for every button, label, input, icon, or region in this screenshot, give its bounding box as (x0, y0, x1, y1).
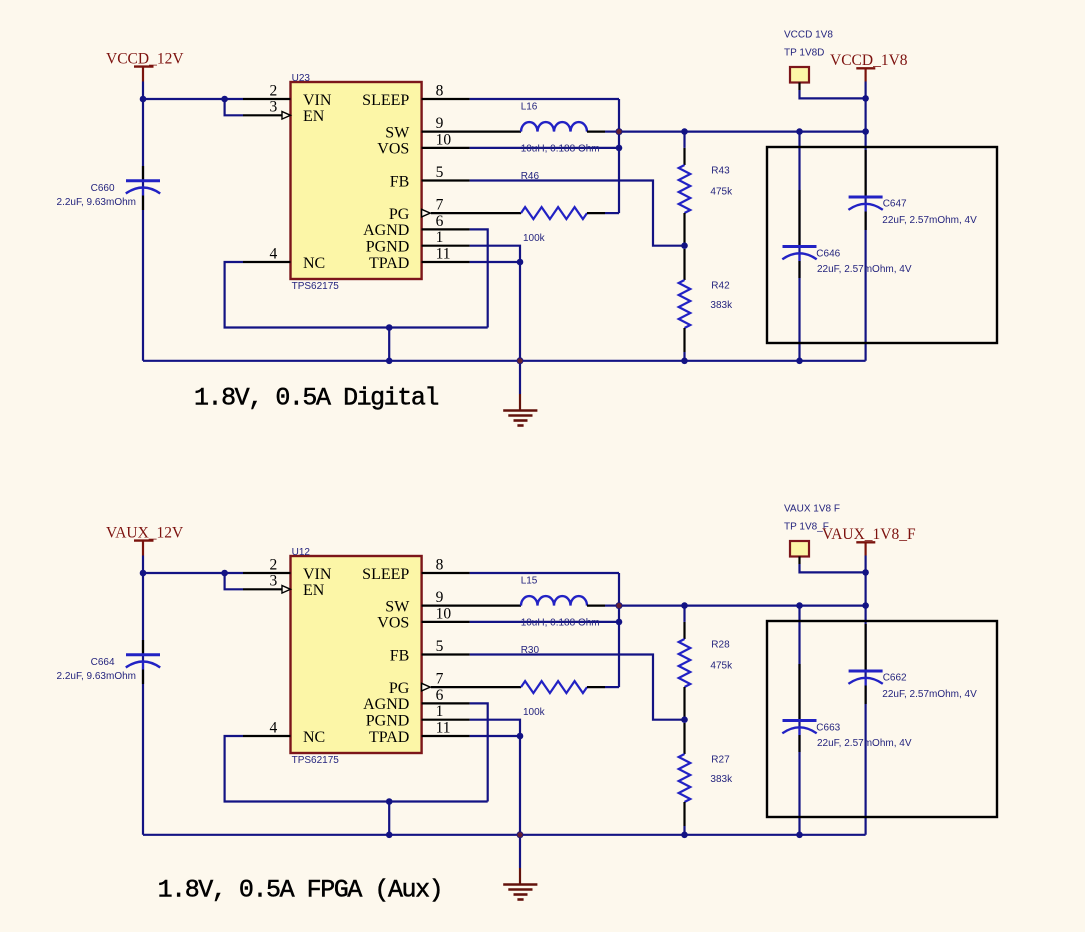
label TPS62175 (292, 755, 340, 766)
pin 8 SLEEP (422, 556, 470, 573)
junction divider top (681, 128, 688, 135)
pin 6 AGND (422, 213, 470, 230)
wire output rail (619, 131, 866, 133)
wire NC loop (225, 736, 488, 802)
svg-text:100k: 100k (523, 233, 546, 244)
junction NC tie (386, 324, 393, 331)
svg-text:AGND: AGND (363, 222, 409, 239)
wire TPAD to ground (470, 262, 520, 361)
inductor L15 (521, 575, 605, 605)
testpoint TP 1V8_F (790, 541, 809, 564)
caption 1.8V, 0.5A Digital (194, 384, 438, 413)
wire output cap column 1 (864, 606, 866, 835)
svg-text:22uF, 2.57mOhm, 4V: 22uF, 2.57mOhm, 4V (882, 689, 977, 700)
wire inductor out (605, 604, 619, 606)
wire output power column (864, 82, 866, 132)
wire testpoint (800, 90, 866, 98)
svg-text:L16: L16 (521, 101, 538, 112)
label TP 1V8D (784, 47, 824, 58)
svg-text:C646: C646 (816, 249, 840, 260)
wire output power column (864, 556, 866, 606)
IC U23 body (291, 82, 422, 279)
wire VOS (470, 621, 619, 623)
pin 10 VOS (422, 131, 470, 148)
svg-text:6: 6 (436, 213, 444, 230)
pin 4 NC (243, 245, 291, 262)
wire inductor out (605, 131, 619, 133)
svg-text:R30: R30 (521, 645, 540, 656)
svg-text:VAUX_12V: VAUX_12V (106, 525, 184, 542)
capacitor C662 (848, 624, 977, 704)
junction PGND TPAD (517, 259, 524, 266)
junction testpoint (862, 569, 869, 576)
wire input cap column (142, 82, 144, 361)
pin 2 VIN (243, 556, 291, 573)
power port VCCD_12V (106, 51, 184, 82)
junction SW node (616, 602, 623, 609)
junction FB divider (681, 242, 688, 249)
svg-text:7: 7 (436, 197, 444, 214)
wire divider top (683, 606, 685, 622)
pin 6 AGND (422, 687, 470, 704)
svg-text:C647: C647 (883, 199, 907, 210)
svg-text:EN: EN (303, 582, 325, 599)
svg-text:VIN: VIN (303, 92, 332, 109)
svg-text:475k: 475k (710, 661, 733, 672)
pin 9 SW (422, 115, 521, 132)
svg-text:7: 7 (436, 671, 444, 688)
svg-text:22uF, 2.57mOhm, 4V: 22uF, 2.57mOhm, 4V (882, 215, 977, 226)
resistor R28 475k (679, 622, 733, 717)
wire output cap column 1 (864, 132, 866, 361)
pin 10 VOS (422, 605, 470, 622)
label U23 (292, 73, 311, 84)
svg-text:NC: NC (303, 729, 325, 746)
svg-text:C660: C660 (91, 183, 115, 194)
wire PG resistor out (605, 212, 619, 214)
svg-text:100k: 100k (523, 707, 546, 718)
pin 4 NC (243, 719, 291, 736)
svg-text:R28: R28 (711, 640, 730, 651)
resistor R42 383k (679, 249, 733, 358)
junction gnd rail left (386, 358, 393, 365)
svg-text:R42: R42 (711, 281, 730, 292)
caption 1.8V, 0.5A FPGA (Aux) (158, 876, 443, 905)
svg-text:VIN: VIN (303, 566, 332, 583)
junction testpoint (862, 95, 869, 102)
svg-text:C663: C663 (816, 723, 840, 734)
svg-text:1.8V, 0.5A Digital: 1.8V, 0.5A Digital (194, 384, 438, 413)
svg-text:3: 3 (270, 99, 278, 116)
label TPS62175 (292, 281, 340, 292)
svg-text:VCCD_1V8: VCCD_1V8 (830, 52, 908, 69)
svg-text:C662: C662 (883, 673, 907, 684)
wire PGND (470, 246, 520, 262)
svg-text:L15: L15 (521, 575, 538, 586)
junction divider gnd (681, 832, 688, 839)
wire PGND (470, 720, 520, 736)
junction rail power (862, 602, 869, 609)
wire testpoint (800, 564, 866, 572)
pin 7 PG (422, 197, 521, 217)
junction EN tap (221, 570, 228, 577)
testpoint TP 1V8D (790, 67, 809, 90)
junction NC tie (386, 798, 393, 805)
junction VOS node (616, 619, 623, 626)
wire FB to divider (470, 655, 685, 720)
svg-text:5: 5 (436, 164, 444, 181)
junction cap2 gnd (796, 832, 803, 839)
junction divider top (681, 602, 688, 609)
power port VAUX_12V (106, 525, 184, 556)
svg-text:NC: NC (303, 255, 325, 272)
inductor L16 (521, 101, 605, 131)
wire EN branch (225, 573, 243, 589)
svg-text:2.2uF, 9.63mOhm: 2.2uF, 9.63mOhm (57, 671, 136, 682)
junction rail power (862, 128, 869, 135)
svg-text:4: 4 (270, 245, 278, 262)
wire EN branch (225, 99, 243, 115)
svg-text:2: 2 (270, 556, 278, 573)
svg-text:22uF, 2.57mOhm, 4V: 22uF, 2.57mOhm, 4V (817, 738, 912, 749)
pin 1 PGND (422, 703, 470, 720)
svg-text:SW: SW (385, 124, 410, 141)
svg-text:U23: U23 (292, 73, 311, 84)
wire ground rail (143, 360, 866, 362)
resistor R46 100k (521, 171, 605, 244)
svg-text:11: 11 (436, 719, 451, 736)
pin 2 VIN (243, 82, 291, 99)
power port VCCD_1V8 (830, 52, 908, 82)
label U12 (292, 547, 311, 558)
svg-text:VOS: VOS (377, 615, 409, 632)
pin 3 EN (243, 99, 291, 119)
svg-text:SLEEP: SLEEP (362, 92, 409, 109)
wire VIN rail (143, 572, 243, 574)
svg-text:FB: FB (390, 647, 410, 664)
svg-text:1: 1 (436, 229, 444, 246)
capacitor group box (767, 621, 997, 817)
label L15 value (521, 617, 600, 628)
junction divider gnd (681, 358, 688, 365)
svg-text:R27: R27 (711, 755, 730, 766)
pin 8 SLEEP (422, 82, 470, 99)
IC U12 body (291, 556, 422, 753)
junction EN tap (221, 96, 228, 103)
svg-text:EN: EN (303, 108, 325, 125)
pin 11 TPAD (422, 719, 470, 736)
wire SLEEP to bus (470, 572, 619, 574)
svg-text:10: 10 (436, 131, 452, 148)
svg-text:383k: 383k (710, 300, 733, 311)
svg-text:10uH, 0.188 Ohm: 10uH, 0.188 Ohm (521, 617, 600, 628)
junction cap2 top (796, 128, 803, 135)
label L16 value (521, 143, 600, 154)
label VAUX 1V8 F (784, 503, 840, 514)
svg-text:1: 1 (436, 703, 444, 720)
svg-text:3: 3 (270, 573, 278, 590)
junction gnd rail left (386, 832, 393, 839)
svg-text:383k: 383k (710, 774, 733, 785)
wire VOS (470, 147, 619, 149)
capacitor C664 (57, 640, 161, 684)
svg-text:C664: C664 (91, 657, 115, 668)
svg-text:10uH, 0.188 Ohm: 10uH, 0.188 Ohm (521, 143, 600, 154)
wire output rail (619, 604, 866, 606)
wire input cap column (142, 556, 144, 835)
svg-text:6: 6 (436, 687, 444, 704)
capacitor C663 (782, 664, 912, 752)
svg-text:R46: R46 (521, 171, 540, 182)
ground (503, 361, 537, 426)
capacitor C660 (57, 166, 161, 210)
junction VIN rail (140, 570, 147, 577)
svg-text:475k: 475k (710, 187, 733, 198)
capacitor C647 (848, 150, 977, 230)
svg-text:AGND: AGND (363, 696, 409, 713)
capacitor C646 (782, 190, 912, 278)
junction gnd symbol (517, 831, 524, 838)
svg-text:VCCD 1V8: VCCD 1V8 (784, 29, 833, 40)
svg-text:R43: R43 (711, 166, 730, 177)
svg-text:2: 2 (270, 82, 278, 99)
junction SW node (616, 128, 623, 135)
junction VOS node (616, 145, 623, 152)
svg-text:VAUX_1V8_F: VAUX_1V8_F (822, 526, 916, 543)
svg-text:TPAD: TPAD (369, 255, 409, 272)
svg-text:2.2uF, 9.63mOhm: 2.2uF, 9.63mOhm (57, 197, 136, 208)
wire ground drop (388, 328, 390, 361)
wire AGND (470, 229, 488, 327)
wire AGND (470, 703, 488, 801)
wire output cap column 2 (798, 132, 800, 361)
pin 11 TPAD (422, 245, 470, 262)
junction cap2 gnd (796, 358, 803, 365)
wire NC loop (225, 262, 488, 328)
svg-text:SLEEP: SLEEP (362, 566, 409, 583)
label TP 1V8_F (784, 521, 829, 532)
svg-text:SW: SW (385, 598, 410, 615)
wire ground rail (143, 834, 866, 836)
pin 3 EN (243, 573, 291, 593)
junction cap2 top (796, 602, 803, 609)
svg-text:TPS62175: TPS62175 (292, 755, 340, 766)
svg-text:PGND: PGND (366, 239, 410, 256)
resistor R27 383k (679, 723, 733, 832)
svg-text:10: 10 (436, 605, 452, 622)
junction VIN rail (140, 96, 147, 103)
capacitor group box (767, 147, 997, 343)
ground (503, 835, 537, 900)
wire TPAD to ground (470, 736, 520, 835)
pin 9 SW (422, 589, 521, 606)
svg-text:8: 8 (436, 82, 444, 99)
svg-text:22uF, 2.57mOhm, 4V: 22uF, 2.57mOhm, 4V (817, 264, 912, 275)
svg-text:PG: PG (389, 206, 410, 223)
pin 1 PGND (422, 229, 470, 246)
pin 5 FB (422, 164, 470, 181)
wire bus vertical (618, 99, 620, 213)
resistor R30 100k (521, 645, 605, 718)
pin 5 FB (422, 638, 470, 655)
svg-text:9: 9 (436, 589, 444, 606)
svg-text:VOS: VOS (377, 141, 409, 158)
svg-text:4: 4 (270, 719, 278, 736)
svg-text:9: 9 (436, 115, 444, 132)
wire divider top (683, 132, 685, 148)
svg-text:TPAD: TPAD (369, 729, 409, 746)
label VCCD 1V8 (784, 29, 833, 40)
resistor R43 475k (679, 148, 733, 243)
svg-text:TP 1V8D: TP 1V8D (784, 47, 824, 58)
svg-text:8: 8 (436, 556, 444, 573)
wire FB to divider (470, 181, 685, 246)
svg-text:TPS62175: TPS62175 (292, 281, 340, 292)
svg-text:PG: PG (389, 680, 410, 697)
svg-text:U12: U12 (292, 547, 311, 558)
junction PGND TPAD (517, 733, 524, 740)
wire bus vertical (618, 573, 620, 687)
svg-text:VCCD_12V: VCCD_12V (106, 51, 184, 68)
junction FB divider (681, 716, 688, 723)
svg-text:1.8V, 0.5A FPGA (Aux): 1.8V, 0.5A FPGA (Aux) (158, 876, 443, 905)
wire VIN rail (143, 98, 243, 100)
wire ground drop (388, 802, 390, 835)
wire SLEEP to bus (470, 98, 619, 100)
svg-text:VAUX 1V8 F: VAUX 1V8 F (784, 503, 840, 514)
power port VAUX_1V8_F (822, 526, 916, 556)
wire PG resistor out (605, 686, 619, 688)
svg-text:5: 5 (436, 638, 444, 655)
svg-text:FB: FB (390, 173, 410, 190)
svg-text:11: 11 (436, 245, 451, 262)
junction gnd symbol (517, 357, 524, 364)
svg-text:PGND: PGND (366, 713, 410, 730)
pin 7 PG (422, 671, 521, 691)
wire output cap column 2 (798, 606, 800, 835)
